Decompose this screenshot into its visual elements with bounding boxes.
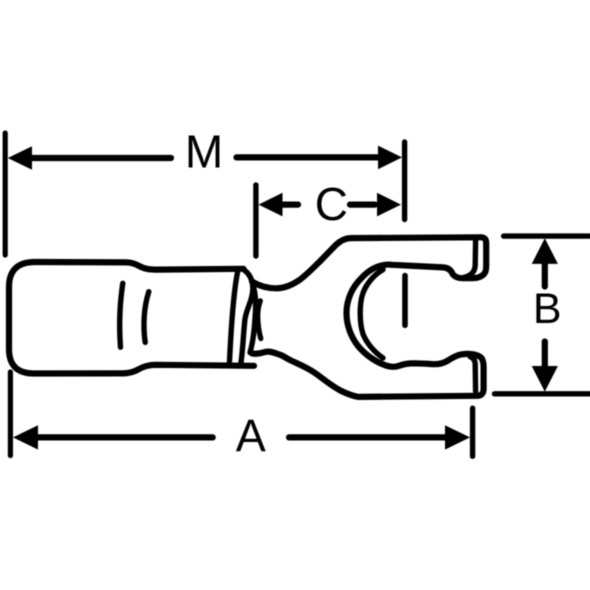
top tip inner flange line (465, 240, 476, 277)
A dimension left extension line (8, 372, 13, 456)
M/C shared right extension line (402, 142, 407, 220)
B bottom extension line (495, 391, 590, 396)
M dimension line (8, 146, 402, 170)
insulation rim left edge (230, 273, 238, 362)
slot inner arc (material thickness) (360, 270, 383, 358)
collar arc mark (258, 301, 261, 339)
M dimension left extension line (3, 133, 8, 255)
C dimension line (259, 193, 402, 217)
A dimension line (13, 425, 470, 449)
svg-text:C: C (315, 178, 348, 230)
metal collar face arc (250, 287, 256, 353)
B top extension line (504, 233, 590, 238)
barrel wrinkle mark 1 (120, 283, 123, 347)
B dimension line with arrowheads (532, 238, 558, 391)
svg-text:M: M (185, 126, 223, 178)
A dimension right extension line (470, 408, 475, 456)
insulation rim right arc (241, 269, 253, 363)
barrel wrinkle mark 2 (144, 292, 149, 343)
stud center mark inside slot (402, 276, 408, 326)
fork body outline (flare, top tine, flanged tip, slot, bottom tine, flanged tip) (252, 237, 486, 397)
svg-text:B: B (533, 285, 562, 333)
terminal: insulation barrel outline (9, 262, 254, 374)
svg-text:A: A (236, 410, 266, 461)
bottom tip inner flange line (470, 357, 476, 392)
C dimension left extension line (253, 185, 258, 256)
